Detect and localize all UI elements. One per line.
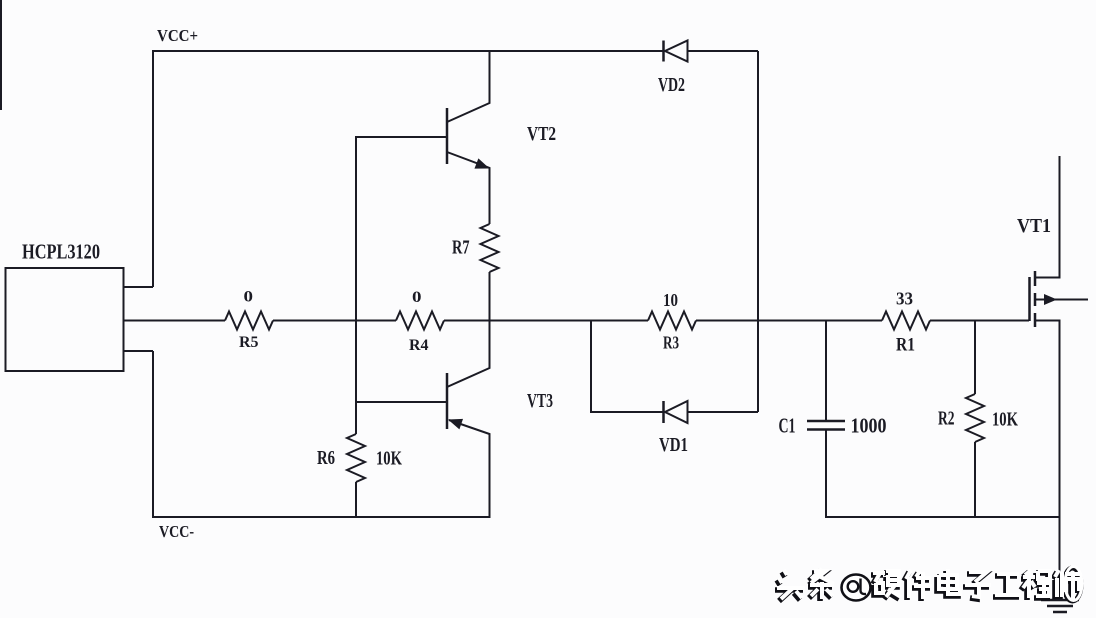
svg-text:10K: 10K [992,409,1018,431]
svg-text:0: 0 [412,289,422,306]
svg-text:R7: R7 [452,237,470,259]
svg-text:1000: 1000 [851,414,887,438]
resistor R1 [882,312,930,330]
resistor R3 [648,312,696,330]
svg-text:R6: R6 [317,447,335,469]
capacitor C1 branch wires [826,321,1060,518]
transistor VT3 [356,321,490,518]
capacitor C1 [807,421,845,430]
node VCC- bottom-left rail [153,351,490,517]
resistor R2 branch wires [974,321,976,518]
resistor R7 [481,224,499,272]
svg-text:VT3: VT3 [527,390,553,412]
diode VD2 [664,41,688,62]
wire R6 branch vertical [355,136,357,517]
svg-text:R4: R4 [409,337,429,354]
ground [1041,600,1079,612]
svg-text:VD2: VD2 [658,74,685,96]
resistor R6 [347,434,365,482]
resistor R5 [225,312,273,330]
svg-text:VD1: VD1 [659,434,688,456]
svg-text:VT1: VT1 [1017,215,1051,237]
svg-text:10K: 10K [376,448,402,470]
svg-text:VT2: VT2 [527,123,556,145]
diode VD1 loop wires [591,321,758,413]
svg-text:10: 10 [663,290,678,310]
svg-text:0: 0 [244,289,254,306]
wire HCPL3120 pin bottom [123,350,153,352]
wire main horizontal net [123,320,1029,322]
svg-text:VCC-: VCC- [159,522,194,541]
svg-text:R3: R3 [663,333,679,353]
wire R7 bottom to main net [489,272,491,321]
IC U1 HCPL3120 box [6,268,124,371]
svg-text:VCC+: VCC+ [157,26,198,45]
svg-text:R2: R2 [938,408,955,430]
svg-text:HCPL3120: HCPL3120 [22,240,100,264]
node VCC+ top rail [153,51,758,287]
svg-text:33: 33 [896,289,913,309]
wire top-right vertical down to VD1 loop [757,51,759,412]
transistor VT2 [356,51,491,224]
diode VD1 [664,401,688,423]
resistor R2 [966,394,984,442]
svg-text:R1: R1 [896,335,915,356]
svg-text:R5: R5 [239,334,259,351]
wire HCPL3120 pin top [123,286,153,288]
svg-text:C1: C1 [779,414,796,438]
wire left-edge artifact [0,0,2,110]
transistor VT1 MOSFET [1030,156,1089,599]
resistor R4 [396,312,444,330]
